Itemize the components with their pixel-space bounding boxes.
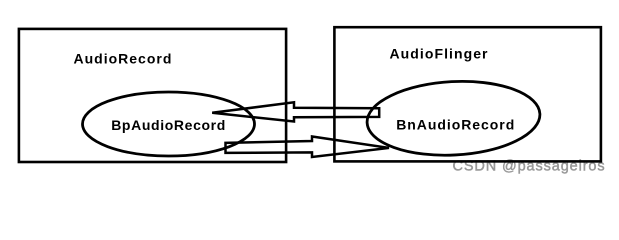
svg-text:AudioFlinger: AudioFlinger xyxy=(390,46,489,62)
arrow left-pointing (BnAudioRecord to BpAudioRecord) xyxy=(212,102,379,121)
ellipse BnAudioRecord xyxy=(365,77,542,159)
box AudioRecord xyxy=(19,29,286,162)
svg-text:BnAudioRecord: BnAudioRecord xyxy=(396,117,515,133)
arrow right-pointing (BpAudioRecord to BnAudioRecord) xyxy=(226,137,390,158)
svg-text:BpAudioRecord: BpAudioRecord xyxy=(111,117,226,133)
svg-text:AudioRecord: AudioRecord xyxy=(74,51,173,67)
box AudioFlinger xyxy=(334,27,601,161)
ellipse BpAudioRecord xyxy=(83,92,255,156)
